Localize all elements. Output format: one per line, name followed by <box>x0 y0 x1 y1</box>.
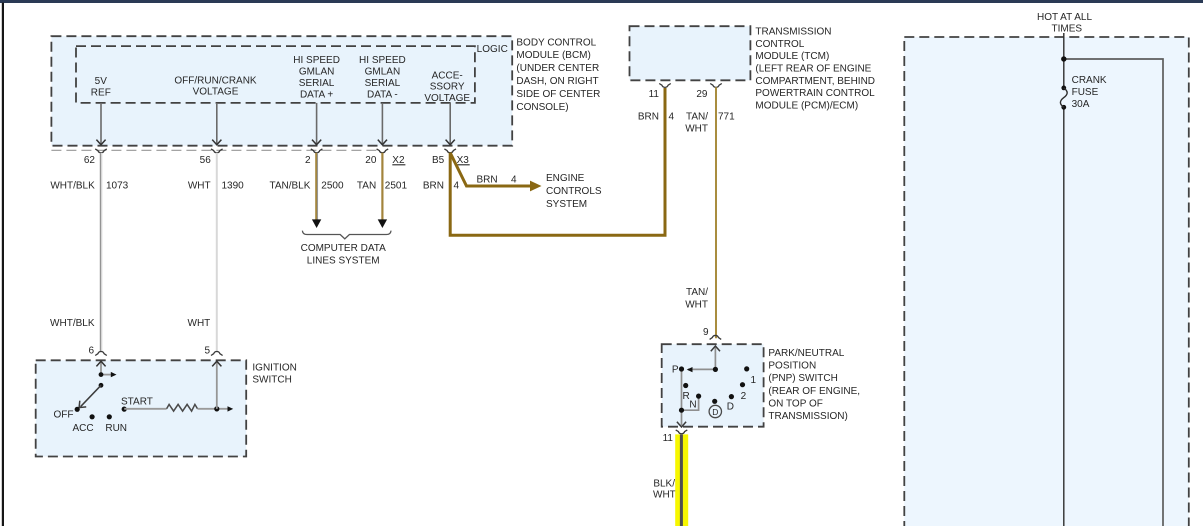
svg-text:OFF/RUN/CRANK: OFF/RUN/CRANK <box>174 75 257 86</box>
svg-text:B5: B5 <box>432 155 445 166</box>
svg-text:TAN/BLK: TAN/BLK <box>269 181 310 192</box>
svg-text:COMPARTMENT, BEHIND: COMPARTMENT, BEHIND <box>755 76 875 87</box>
svg-text:TAN: TAN <box>357 181 376 192</box>
svg-text:2: 2 <box>305 155 311 166</box>
svg-text:4: 4 <box>669 112 675 123</box>
svg-text:LINES SYSTEM: LINES SYSTEM <box>307 255 380 266</box>
svg-text:WHT: WHT <box>685 124 708 135</box>
svg-text:REF: REF <box>91 87 111 98</box>
svg-text:BRN: BRN <box>423 181 444 192</box>
svg-text:P: P <box>672 365 679 376</box>
svg-text:4: 4 <box>511 175 517 186</box>
svg-text:COMPUTER DATA: COMPUTER DATA <box>301 243 387 254</box>
svg-text:N: N <box>689 400 696 411</box>
svg-text:WHT/BLK: WHT/BLK <box>50 181 95 192</box>
svg-text:MODULE (PCM)/ECM): MODULE (PCM)/ECM) <box>755 101 858 112</box>
svg-text:OFF: OFF <box>54 409 74 420</box>
svg-text:(PNP) SWITCH: (PNP) SWITCH <box>768 373 837 384</box>
svg-text:TAN/: TAN/ <box>686 112 708 123</box>
svg-text:WHT: WHT <box>685 300 708 311</box>
svg-text:VOLTAGE: VOLTAGE <box>193 87 239 98</box>
svg-text:(REAR OF ENGINE,: (REAR OF ENGINE, <box>768 386 860 397</box>
svg-text:IGNITION: IGNITION <box>252 363 296 374</box>
svg-text:CONSOLE): CONSOLE) <box>516 102 568 113</box>
svg-text:30A: 30A <box>1072 99 1090 110</box>
svg-text:PARK/NEUTRAL: PARK/NEUTRAL <box>768 348 844 359</box>
svg-text:5V: 5V <box>95 76 108 87</box>
svg-text:5: 5 <box>204 346 210 357</box>
svg-text:6: 6 <box>88 346 94 357</box>
svg-text:4: 4 <box>454 181 460 192</box>
svg-text:2501: 2501 <box>385 181 408 192</box>
svg-text:BODY CONTROL: BODY CONTROL <box>516 37 596 48</box>
svg-text:BRN: BRN <box>638 112 659 123</box>
svg-text:(LEFT REAR OF ENGINE: (LEFT REAR OF ENGINE <box>755 63 871 74</box>
svg-text:CRANK: CRANK <box>1072 75 1107 86</box>
svg-text:HI SPEED: HI SPEED <box>359 55 406 66</box>
svg-text:ACC: ACC <box>72 423 93 434</box>
svg-text:56: 56 <box>200 155 212 166</box>
svg-text:ACCE-: ACCE- <box>432 70 463 81</box>
svg-text:SYSTEM: SYSTEM <box>546 199 587 210</box>
svg-text:ON TOP OF: ON TOP OF <box>768 398 822 409</box>
svg-text:POWERTRAIN CONTROL: POWERTRAIN CONTROL <box>755 88 875 99</box>
svg-text:MODULE (TCM): MODULE (TCM) <box>755 51 829 62</box>
svg-text:SERIAL: SERIAL <box>365 78 401 89</box>
svg-text:HI SPEED: HI SPEED <box>293 55 340 66</box>
svg-text:BLK/: BLK/ <box>653 479 675 490</box>
svg-text:1390: 1390 <box>222 181 245 192</box>
svg-text:62: 62 <box>84 155 96 166</box>
svg-text:HOT AT ALL: HOT AT ALL <box>1037 12 1092 23</box>
svg-text:SWITCH: SWITCH <box>252 375 291 386</box>
svg-text:9: 9 <box>703 327 709 338</box>
svg-text:2: 2 <box>741 391 747 402</box>
svg-text:771: 771 <box>718 112 735 123</box>
svg-text:MODULE (BCM): MODULE (BCM) <box>516 50 590 61</box>
svg-text:LOGIC: LOGIC <box>477 44 508 55</box>
svg-text:D: D <box>727 401 734 412</box>
svg-text:TAN/: TAN/ <box>686 287 708 298</box>
svg-text:DATA -: DATA - <box>367 89 398 100</box>
svg-text:TRANSMISSION: TRANSMISSION <box>755 26 831 37</box>
svg-text:WHT: WHT <box>653 490 676 501</box>
svg-text:11: 11 <box>649 89 660 100</box>
svg-text:RUN: RUN <box>105 423 127 434</box>
svg-text:20: 20 <box>365 155 377 166</box>
svg-text:1073: 1073 <box>106 181 129 192</box>
svg-text:SIDE OF CENTER: SIDE OF CENTER <box>516 89 600 100</box>
svg-text:29: 29 <box>696 89 708 100</box>
svg-text:ENGINE: ENGINE <box>546 173 585 184</box>
svg-text:SERIAL: SERIAL <box>299 78 335 89</box>
svg-text:2500: 2500 <box>321 181 344 192</box>
svg-text:GMLAN: GMLAN <box>365 67 401 78</box>
svg-text:(UNDER CENTER: (UNDER CENTER <box>516 63 599 74</box>
svg-text:CONTROLS: CONTROLS <box>546 186 602 197</box>
svg-text:CONTROL: CONTROL <box>755 39 804 50</box>
svg-text:11: 11 <box>663 433 674 444</box>
svg-text:WHT/BLK: WHT/BLK <box>50 318 95 329</box>
svg-text:DASH, ON RIGHT: DASH, ON RIGHT <box>516 76 598 87</box>
svg-text:SSORY: SSORY <box>430 82 465 93</box>
svg-text:GMLAN: GMLAN <box>299 67 335 78</box>
svg-text:TRANSMISSION): TRANSMISSION) <box>768 411 847 422</box>
svg-text:START: START <box>121 396 153 407</box>
svg-text:WHT: WHT <box>188 181 211 192</box>
svg-text:1: 1 <box>751 375 757 386</box>
svg-text:POSITION: POSITION <box>768 361 816 372</box>
svg-text:WHT: WHT <box>188 318 211 329</box>
svg-text:D: D <box>712 407 718 417</box>
svg-text:FUSE: FUSE <box>1072 87 1099 98</box>
svg-text:VOLTAGE: VOLTAGE <box>424 93 470 104</box>
svg-text:BRN: BRN <box>476 175 497 186</box>
svg-text:TIMES: TIMES <box>1052 23 1083 34</box>
svg-text:DATA +: DATA + <box>300 89 333 100</box>
